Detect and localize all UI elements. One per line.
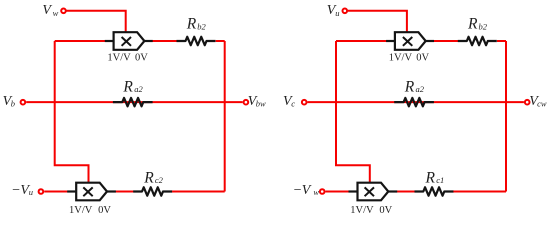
terminal Vb bbox=[21, 100, 26, 105]
wire -Vu to U2 bbox=[44, 191, 70, 193]
svg-text:b: b bbox=[11, 98, 15, 108]
multiplier U1 bbox=[105, 32, 153, 50]
terminal Vw bbox=[61, 9, 66, 14]
terminal Vu bbox=[343, 9, 348, 14]
svg-text:c1: c1 bbox=[436, 175, 444, 185]
wire U1 input bbox=[55, 40, 108, 42]
svg-text:1V/V: 1V/V bbox=[69, 205, 93, 216]
wire right rail bbox=[224, 41, 226, 192]
svg-text:1V/V: 1V/V bbox=[107, 53, 131, 64]
svg-text:u: u bbox=[29, 187, 33, 197]
svg-text:cw: cw bbox=[537, 99, 547, 109]
terminal -Vw bbox=[320, 189, 325, 194]
svg-text:R: R bbox=[425, 169, 436, 186]
svg-text:R: R bbox=[143, 169, 154, 186]
resistor Rc2 bbox=[133, 187, 172, 195]
wire Rb2 to right rail 2 bbox=[497, 40, 506, 42]
wire right rail 2 bbox=[505, 41, 507, 192]
wire input rail right bbox=[336, 41, 370, 183]
svg-text:bw: bw bbox=[256, 99, 266, 109]
resistor Rb2 right bbox=[458, 37, 497, 45]
svg-text:0V: 0V bbox=[379, 205, 392, 216]
svg-text:V: V bbox=[302, 183, 312, 198]
svg-text:0V: 0V bbox=[98, 205, 111, 216]
wire input rail bbox=[55, 41, 89, 183]
wire Rc1 to right rail 2 bbox=[453, 191, 506, 193]
terminal Vcw bbox=[525, 100, 530, 105]
svg-text:b2: b2 bbox=[197, 21, 206, 31]
svg-text:a2: a2 bbox=[416, 84, 425, 94]
svg-text:c2: c2 bbox=[155, 175, 164, 185]
svg-text:R: R bbox=[186, 15, 197, 32]
svg-text:w: w bbox=[313, 187, 319, 197]
svg-text:R: R bbox=[467, 15, 478, 32]
svg-text:b2: b2 bbox=[479, 21, 488, 31]
svg-text:a2: a2 bbox=[134, 84, 143, 94]
resistor Ra2 bbox=[113, 98, 153, 106]
terminal -Vu bbox=[39, 189, 44, 194]
wire U1 output bbox=[150, 40, 177, 42]
svg-text:0V: 0V bbox=[416, 53, 429, 64]
multiplier U3 bbox=[386, 32, 434, 50]
svg-text:1V/V: 1V/V bbox=[350, 205, 374, 216]
svg-text:0V: 0V bbox=[135, 53, 148, 64]
svg-text:−: − bbox=[293, 183, 302, 198]
svg-text:1V/V: 1V/V bbox=[389, 53, 413, 64]
svg-text:−: − bbox=[11, 183, 20, 198]
svg-text:u: u bbox=[335, 8, 339, 18]
wire mid rail right bbox=[308, 101, 524, 103]
wire U2 output bbox=[112, 191, 134, 193]
svg-text:w: w bbox=[53, 8, 59, 18]
resistor Rb2 bbox=[177, 37, 216, 45]
wire U3 input bbox=[336, 40, 389, 42]
resistor Ra2 right bbox=[394, 98, 434, 106]
wire Rb2 to right rail bbox=[216, 40, 225, 42]
svg-text:c: c bbox=[291, 98, 295, 108]
wire Rc2 to right rail bbox=[172, 191, 225, 193]
multiplier U4 bbox=[349, 183, 398, 201]
terminal Vbw bbox=[244, 100, 249, 105]
svg-text:R: R bbox=[122, 78, 133, 95]
wire U4 output bbox=[393, 191, 415, 193]
wire Vw to U1 top bbox=[67, 11, 126, 32]
resistor Rc1 bbox=[415, 187, 454, 195]
wire -Vw to U4 bbox=[326, 191, 352, 193]
wire Vu to U3 top bbox=[348, 11, 407, 32]
svg-text:V: V bbox=[42, 3, 52, 18]
svg-text:R: R bbox=[404, 78, 415, 95]
wire mid rail bbox=[26, 101, 242, 103]
wire U3 output bbox=[431, 40, 458, 42]
multiplier U2 bbox=[67, 183, 116, 201]
terminal Vc bbox=[302, 100, 307, 105]
